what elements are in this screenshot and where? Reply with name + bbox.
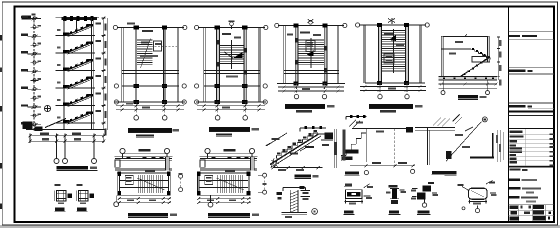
level mark leader line [33,17,35,132]
section 2-2 drawing [439,34,502,95]
stair flight detail TB section [266,126,337,171]
floor plan A (stairs 1.2# floors 2-4) [113,22,187,111]
floor plan B (stairs 1.2# ground floor) [195,21,268,112]
section 2-2 title [458,95,487,99]
fold mark 3 [0,106,2,112]
floor plan A axis bubbles below [134,102,167,120]
fold mark 4 [0,163,2,169]
TB1 column detail [277,186,310,218]
footing detail FTL1 [411,182,438,207]
detail index bubble 1 [312,209,318,215]
floor plan B title [209,127,259,136]
floor plan D (stairs 1.2# roof plan) [356,18,430,99]
sheet bottom edge shadow [0,225,560,228]
stair section bottom dimensions [28,133,105,144]
detail label row left [345,171,369,176]
TB1 detail label [295,174,319,178]
floor plan F2 title [208,213,259,217]
fold mark 1 [0,35,2,41]
title block row 3 [508,103,554,115]
level column header [22,14,36,20]
column cap detail [458,181,497,213]
landing handrail node detail [415,115,503,166]
detail label row right [411,169,448,174]
section 1-1 title [57,166,98,171]
title block drawing name rows [509,178,541,202]
section cut mark pair b [258,173,267,194]
GZa label [389,210,401,214]
floor plan F1 title [128,213,177,217]
floor plan C title [285,104,335,112]
FTL1 label [417,210,431,214]
stair section walls and roof [56,16,100,130]
stair step profile detail [341,115,415,167]
section cut mark pair a [179,173,183,191]
floor plan A title [128,128,179,137]
stair section axis bubbles [54,143,97,163]
lintel detail LT2 [76,184,94,204]
floor plan D title [369,104,423,112]
floor plan F2 (3# stairs upper) [197,170,251,207]
title block row 1 (project name) [508,32,554,40]
floor plan F1 (3# stairs) [114,170,171,207]
lintel detail LT2 label [77,208,88,212]
stair section floors and flights [56,22,102,124]
fold mark 2 [0,68,2,73]
KLa label [344,210,355,214]
datum symbol [44,105,50,111]
lintel detail LT1 [54,184,72,204]
title block row 2 [508,67,554,74]
title block divider [507,7,509,221]
lintel detail LT1 label [55,208,66,212]
title block notes list [508,129,554,172]
title block signature table [508,205,554,221]
floor plan B axis bubbles below [215,102,247,120]
beam elevation TL2 [200,148,258,170]
node label 5 [444,171,456,175]
beam elevation TL1 [115,148,173,170]
fold mark 5 [0,204,2,210]
beam section detail KLa [344,184,373,205]
column section detail GZa [386,185,406,204]
elevation level markers [21,16,41,127]
stair section ground foundation [23,119,107,132]
floor plan C (stairs 1.2# fifth floor) [275,19,347,99]
stair section right dimension line [102,17,108,136]
